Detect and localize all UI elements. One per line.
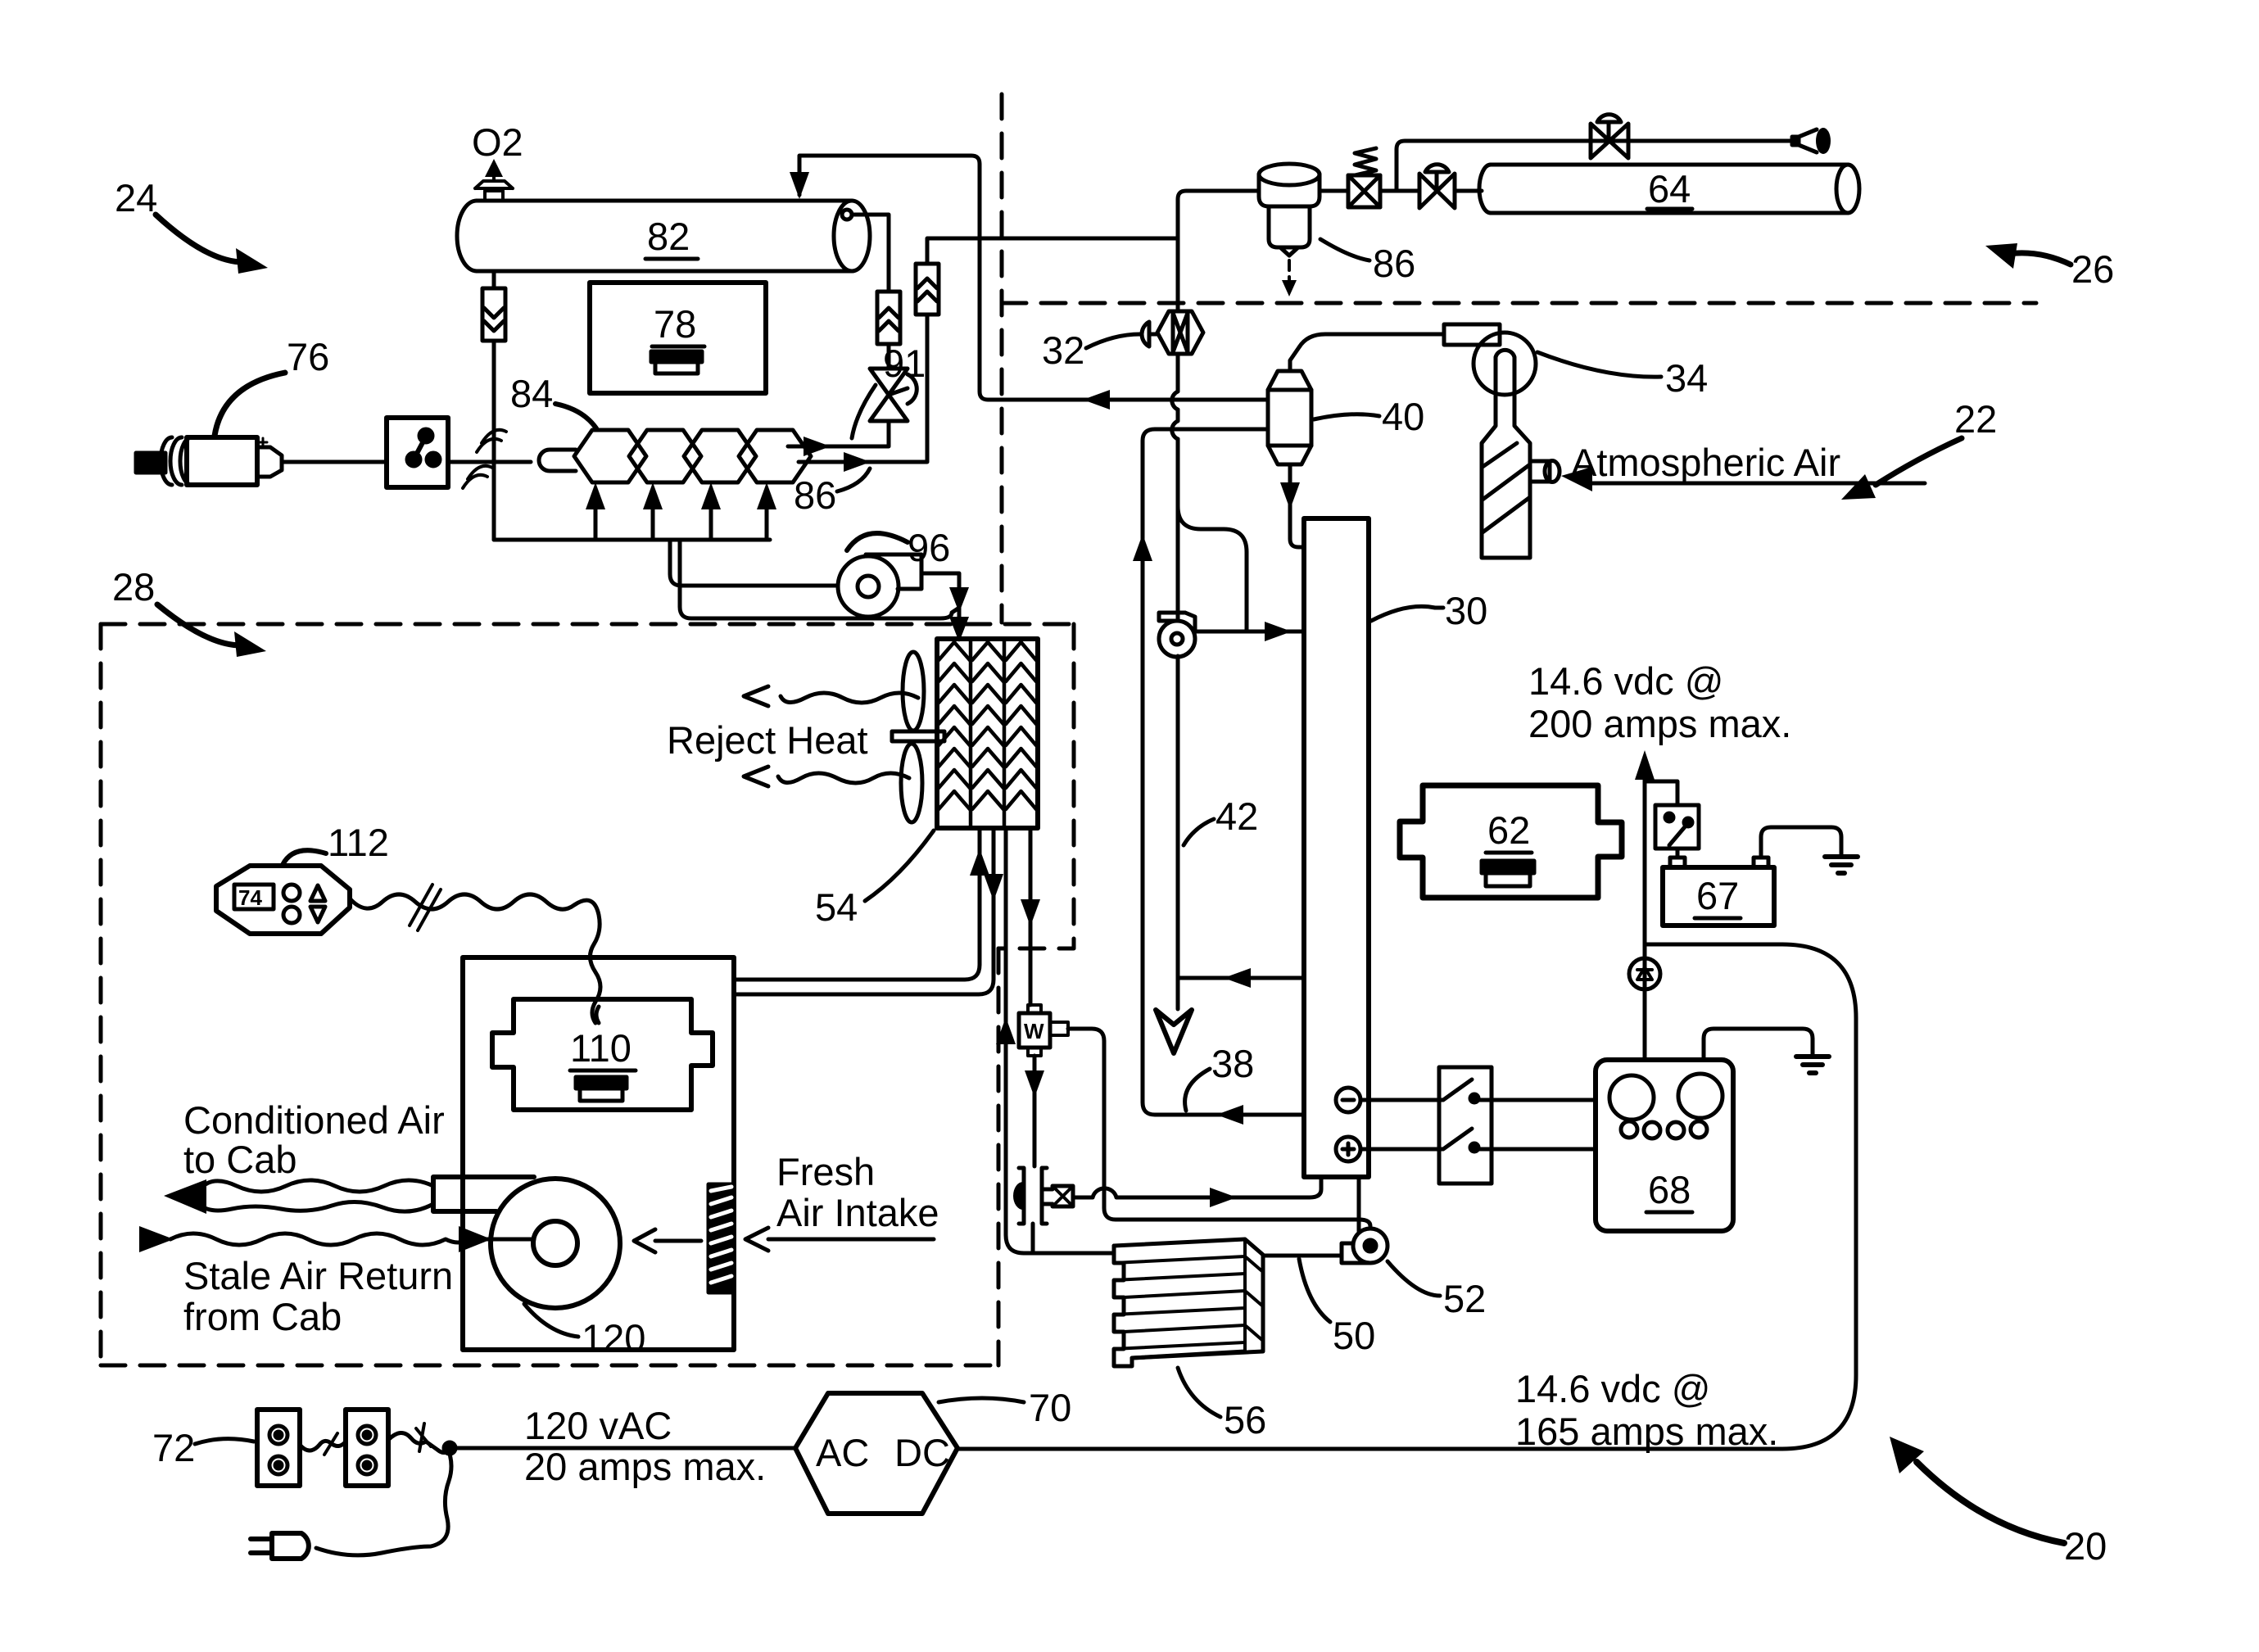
wire negative terminal to switch (1360, 1098, 1439, 1102)
svg-text:120: 120 (582, 1316, 645, 1360)
svg-text:67: 67 (1696, 874, 1739, 917)
thermostat cable with break (350, 894, 600, 1023)
circulator blower 42 (1159, 613, 1195, 657)
svg-text:84: 84 (510, 372, 553, 415)
condensate drain arrow (1176, 978, 1180, 1009)
svg-text:86: 86 (794, 473, 836, 517)
dashed border section 28 left (99, 624, 103, 1365)
fresh air arrow outside (745, 1228, 934, 1251)
filter drier left (482, 288, 505, 341)
furnace housing (463, 957, 734, 1350)
wire column return to drain arrow (1178, 656, 1304, 978)
svg-text:42: 42 (1216, 794, 1258, 838)
svg-text:54: 54 (815, 885, 858, 929)
bus riser arrow 4 (765, 501, 769, 540)
atmospheric air inlet stub (1530, 461, 1560, 482)
wall outlet 72a (257, 1410, 300, 1486)
dashed border section 28 bottom (101, 1364, 998, 1368)
svg-text:70: 70 (1029, 1386, 1071, 1429)
wire W2 bottom to heat sink line (1031, 1224, 1035, 1253)
motor 76 (136, 437, 282, 485)
svg-text:14.6 vdc @: 14.6 vdc @ (1528, 659, 1723, 703)
svg-text:72: 72 (152, 1426, 195, 1469)
cathode blower 52 (1342, 1229, 1388, 1263)
reformer hexagon 2 (629, 430, 701, 482)
electrolyzer column 30 (1304, 518, 1369, 1177)
fan of heat exchanger 32 (1142, 322, 1157, 346)
wire filter right up and to heat exchanger 32 (927, 238, 1178, 264)
bus riser arrow 2 (651, 501, 655, 540)
svg-text:120 vAC: 120 vAC (524, 1404, 672, 1447)
svg-text:from Cab: from Cab (183, 1295, 342, 1338)
svg-text:Conditioned Air: Conditioned Air (183, 1098, 445, 1142)
vent line from solenoid junction (1397, 141, 1799, 191)
svg-text:38: 38 (1211, 1042, 1254, 1085)
svg-text:Air Intake: Air Intake (776, 1191, 939, 1234)
svg-text:30: 30 (1445, 589, 1487, 632)
valve W1 (1019, 1005, 1068, 1056)
reformer hexagon 3 (684, 430, 756, 482)
reject heat wavy arrow bottom (778, 773, 909, 783)
svg-text:68: 68 (1648, 1168, 1691, 1211)
ground panel (1796, 1057, 1829, 1073)
dashed divider section 26 bottom (1002, 301, 2036, 306)
coolant line 54 to furnace lower (734, 828, 994, 994)
svg-text:52: 52 (1443, 1277, 1486, 1320)
svg-text:20 amps max.: 20 amps max. (524, 1445, 766, 1488)
solenoid valve with spring (1348, 148, 1380, 207)
relay 66 (1655, 805, 1699, 849)
svg-text:40: 40 (1382, 395, 1424, 438)
oxygen cylinder 82 (457, 201, 870, 271)
dashed divider between section 24 and 26 (1000, 94, 1004, 622)
heat exchanger 54 (937, 639, 1038, 828)
dashed border section 28 top (101, 622, 1074, 627)
fuel bus under reformer (494, 538, 770, 542)
svg-text:24: 24 (115, 176, 157, 220)
slot on 62 (1482, 861, 1534, 886)
filter drier right (916, 264, 939, 315)
wire blower 34 to separator 40 (1290, 334, 1444, 371)
svg-text:O2: O2 (472, 120, 523, 164)
heat sink 56 (1114, 1239, 1263, 1366)
furnace control 110 (492, 999, 713, 1110)
wire motor to switch (282, 460, 387, 464)
reformate line upper with arrow (788, 421, 889, 446)
svg-text:Fresh: Fresh (776, 1150, 875, 1193)
fresh air arrow inside (634, 1229, 701, 1252)
wire air feed into column 30 (1196, 630, 1304, 634)
wire W1 to W2 (1033, 1056, 1037, 1166)
svg-text:28: 28 (112, 565, 155, 609)
svg-text:62: 62 (1487, 808, 1530, 852)
svg-text:165 amps max.: 165 amps max. (1515, 1410, 1778, 1453)
thermostat 112 (216, 866, 350, 934)
wire solenoid to regulator (1380, 189, 1419, 193)
wire relay to battery terminal (1676, 849, 1680, 858)
filter drier above valve 91 (877, 292, 900, 369)
reject heat wavy arrow top (781, 693, 918, 703)
positive terminal (1336, 1137, 1360, 1161)
wire filter to cylinder end port (852, 215, 889, 292)
control box 78 (590, 283, 766, 393)
switch box 77 (387, 418, 448, 487)
wire panel to ground (1704, 1029, 1813, 1060)
wire 32 down to circulator 42 with line hops (1172, 354, 1178, 621)
svg-text:74: 74 (238, 885, 262, 910)
wire heat sink to blower 52 outlet (1263, 1254, 1340, 1258)
bus riser arrow 1 (594, 501, 598, 540)
fresh air filter (708, 1184, 734, 1292)
wire separator 40 to column 30 top (1290, 464, 1304, 547)
wire hydrogen from column bottom to separator 40 (1143, 429, 1304, 1115)
reformer hexagon 1 of chain 84 (574, 430, 646, 482)
wire riser to water trap 86 (1178, 191, 1259, 310)
svg-text:to Cab: to Cab (183, 1138, 297, 1181)
svg-text:200 amps max.: 200 amps max. (1528, 702, 1791, 745)
svg-text:34: 34 (1665, 356, 1708, 400)
wire column bottom to blower 52 (1357, 1177, 1361, 1231)
negative terminal (1336, 1088, 1360, 1112)
wire battery to ground (1761, 827, 1841, 858)
svg-text:Atmospheric Air: Atmospheric Air (1571, 441, 1840, 484)
ground battery (1825, 857, 1858, 873)
svg-text:32: 32 (1042, 328, 1084, 372)
wire branch to relay 66 (1645, 781, 1677, 805)
slot on 110 (576, 1077, 627, 1101)
wire bus bypass to heat exchanger 54 inlet (680, 540, 959, 618)
power plug (251, 1533, 309, 1559)
cooling fan of 54 (892, 652, 944, 822)
coolant line 54 to furnace upper (734, 828, 980, 980)
vent relief valve (1591, 115, 1628, 158)
plug cord to junction (316, 1451, 451, 1555)
svg-text:20: 20 (2064, 1524, 2107, 1568)
svg-text:110: 110 (570, 1026, 632, 1070)
svg-text:76: 76 (287, 335, 329, 378)
water line 54 to valve W1 (1029, 828, 1033, 1005)
svg-text:26: 26 (2071, 247, 2114, 291)
valve W2 (1013, 1168, 1073, 1224)
wire trap to solenoid valve (1320, 189, 1348, 193)
wire oxygen-rich air from 32 to column feed (1178, 439, 1247, 631)
svg-text:78: 78 (654, 302, 696, 346)
blower 96 (838, 554, 921, 617)
battery 67 (1663, 858, 1774, 926)
ac mains wire (450, 1446, 795, 1451)
reformer hexagon 4 (739, 430, 811, 482)
bus riser arrow 3 (709, 501, 713, 540)
dashed border around heat exchanger 54 right (998, 624, 1074, 948)
breaker fuse (1629, 958, 1660, 989)
wire bus to blower 96 (670, 540, 838, 586)
wire W1 side to blower 52 inlet (1068, 1029, 1370, 1229)
wire switch to reformer inlet with hose break (448, 460, 531, 464)
svg-text:DC: DC (894, 1431, 950, 1474)
svg-text:22: 22 (1954, 397, 1997, 441)
separator 40 (1268, 371, 1311, 464)
wire blower 96 to heat exchanger 54 (921, 573, 959, 639)
cord outlet to junction (388, 1432, 450, 1452)
slot on box 78 (651, 351, 702, 373)
svg-text:Reject Heat: Reject Heat (667, 718, 868, 762)
svg-text:82: 82 (647, 215, 690, 258)
air blower 34 (1444, 324, 1536, 395)
O2 vent valve on cylinder 82 (475, 159, 513, 201)
conditioned air wavy flow (200, 1180, 433, 1192)
stale air return wavy flow (170, 1233, 469, 1245)
power conditioner 62 (1400, 785, 1622, 898)
valve 91 (870, 369, 917, 421)
svg-text:112: 112 (328, 821, 389, 864)
svg-text:AC: AC (816, 1431, 869, 1474)
svg-text:96: 96 (908, 526, 950, 569)
dashed border section 28 right (997, 948, 1001, 1365)
wire regulator to hydrogen cylinder 64 (1455, 189, 1482, 193)
control panel 68 (1596, 1060, 1733, 1231)
wire switch to panel 68 negative (1477, 1098, 1596, 1102)
svg-text:50: 50 (1333, 1314, 1375, 1357)
disconnect switch box (1439, 1067, 1492, 1184)
svg-text:64: 64 (1648, 167, 1691, 210)
air filter canister 22 (1482, 382, 1530, 558)
wire positive terminal to switch (1360, 1147, 1439, 1152)
cab blower 120 (433, 1177, 620, 1308)
wire switch to panel 68 positive (1477, 1147, 1596, 1152)
pressure regulator valve (1419, 165, 1455, 208)
wire loop from battery junction (957, 944, 1856, 1449)
wire W2 side to column 30 bottom with arrow (1073, 1177, 1321, 1197)
hydrogen cylinder 64 (1479, 165, 1859, 213)
vent nozzle horn (1792, 128, 1831, 154)
wall outlet 72b (346, 1410, 388, 1486)
wire oxygen return to cylinder 82 (799, 156, 1268, 400)
reformate line lower with arrow (799, 315, 927, 462)
inverter 70 AC DC hexagon (795, 1393, 957, 1514)
water line 54 down left of valves (1006, 828, 1114, 1253)
thermostat cable into furnace control (596, 1007, 599, 1023)
jumper cord between outlets (300, 1441, 346, 1451)
atmospheric air arrow (1587, 482, 1925, 486)
water trap 86 (1259, 164, 1320, 296)
heat exchanger 32 (1157, 311, 1203, 354)
reformer inlet bell (539, 450, 576, 471)
svg-text:14.6 vdc @: 14.6 vdc @ (1515, 1367, 1710, 1410)
svg-text:56: 56 (1224, 1398, 1266, 1442)
svg-text:W: W (1024, 1019, 1044, 1043)
svg-text:86: 86 (1373, 242, 1415, 285)
dc power arrow up (1643, 778, 1647, 1060)
svg-text:Stale Air Return: Stale Air Return (183, 1254, 453, 1297)
wire cylinder82 down to bus with hose break and filter (492, 273, 496, 540)
